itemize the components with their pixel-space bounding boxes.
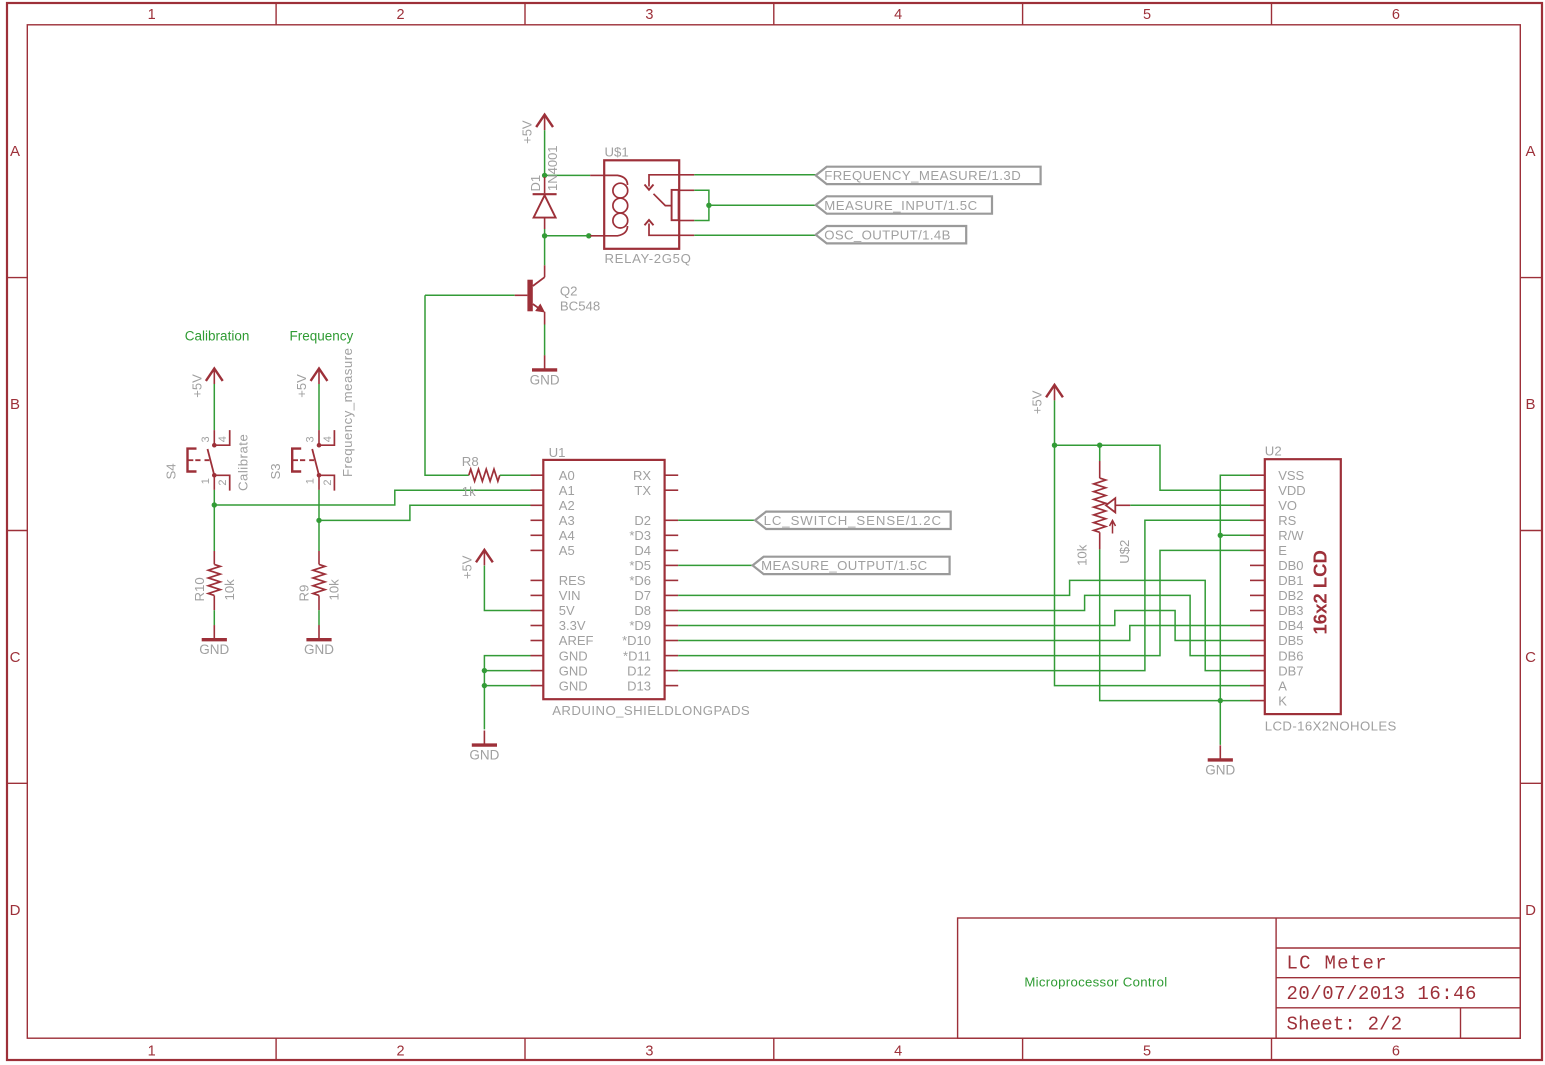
svg-text:2: 2: [322, 479, 334, 485]
junction rail/+5V: [1052, 443, 1057, 448]
net flag MEASURE_OUTPUT/1.5C: [753, 557, 950, 574]
svg-text:VIN: VIN: [559, 588, 581, 603]
svg-text:*D6: *D6: [629, 573, 651, 588]
svg-text:1k: 1k: [462, 484, 476, 499]
ground (R9): [318, 625, 320, 640]
wire rail to LCD VDD: [1055, 445, 1251, 490]
net flag MEASURE_INPUT/1.5C: [816, 196, 992, 213]
svg-text:D: D: [10, 902, 21, 919]
svg-text:RS: RS: [1278, 513, 1296, 528]
svg-text:C: C: [10, 649, 21, 666]
svg-text:S3: S3: [268, 463, 283, 479]
svg-text:Q2: Q2: [560, 283, 578, 298]
svg-text:GND: GND: [199, 642, 229, 657]
svg-text:4: 4: [322, 436, 334, 442]
svg-text:D8: D8: [634, 603, 651, 618]
svg-text:10k: 10k: [327, 579, 342, 601]
svg-text:Calibration: Calibration: [185, 328, 250, 343]
supply +5V (relay): [536, 115, 553, 127]
svg-text:16x2 LCD: 16x2 LCD: [1310, 550, 1331, 634]
svg-text:*D11: *D11: [623, 648, 651, 663]
wire D9 to LCD DB5: [678, 611, 1250, 641]
svg-text:GND: GND: [304, 642, 334, 657]
svg-text:U2: U2: [1265, 444, 1282, 459]
svg-text:RX: RX: [633, 468, 651, 483]
U1 left pin stubs: [531, 474, 544, 476]
svg-text:B: B: [1525, 396, 1535, 413]
junction on coil wire: [586, 233, 591, 238]
svg-text:BC548: BC548: [560, 298, 600, 313]
svg-text:GND: GND: [469, 748, 499, 763]
wire rail down to LCD A (backlight): [1055, 445, 1251, 685]
wire S4 node to U1 A1: [214, 490, 530, 505]
svg-text:DB0: DB0: [1278, 558, 1303, 573]
svg-text:*D5: *D5: [629, 558, 651, 573]
svg-text:3: 3: [305, 436, 317, 442]
svg-text:U1: U1: [549, 445, 566, 460]
svg-text:*D10: *D10: [622, 633, 651, 648]
wire +5V to U1 5V: [484, 566, 530, 611]
svg-text:1: 1: [148, 1044, 156, 1060]
svg-text:MEASURE_INPUT/1.5C: MEASURE_INPUT/1.5C: [824, 198, 978, 213]
svg-text:4: 4: [217, 436, 229, 442]
wire pot wiper to LCD VO: [1130, 504, 1250, 506]
svg-text:GND: GND: [1205, 762, 1235, 777]
svg-text:DB5: DB5: [1278, 633, 1303, 648]
svg-text:RELAY-2G5Q: RELAY-2G5Q: [605, 251, 692, 266]
junction S4 node: [212, 502, 217, 507]
svg-text:D4: D4: [634, 543, 651, 558]
svg-text:D13: D13: [627, 678, 651, 693]
wire D7 to LCD DB7: [678, 580, 1250, 670]
junction node MEASURE_INPUT: [706, 203, 711, 208]
svg-text:K: K: [1278, 693, 1287, 708]
svg-text:LC_SWITCH_SENSE/1.2C: LC_SWITCH_SENSE/1.2C: [764, 513, 942, 528]
svg-text:+5V: +5V: [1030, 390, 1045, 414]
resistor R10 10k: [208, 564, 220, 595]
svg-text:A: A: [1525, 143, 1535, 160]
svg-text:3.3V: 3.3V: [559, 618, 586, 633]
svg-text:A2: A2: [559, 498, 575, 513]
ground (LCD): [1219, 745, 1221, 760]
svg-text:E: E: [1278, 543, 1287, 558]
wire S4 pin 1 down: [213, 475, 215, 490]
svg-text:TX: TX: [634, 483, 651, 498]
svg-text:FREQUENCY_MEASURE/1.3D: FREQUENCY_MEASURE/1.3D: [824, 168, 1021, 183]
relay U$1 RELAY-2G5Q: [604, 160, 679, 249]
svg-text:AREF: AREF: [559, 633, 594, 648]
svg-text:1N4001: 1N4001: [545, 145, 560, 191]
svg-text:GND: GND: [559, 648, 588, 663]
potentiometer U$2 10k: [1099, 445, 1101, 461]
wire R8 to U1 A0: [500, 474, 531, 476]
svg-text:D12: D12: [627, 663, 651, 678]
svg-text:10k: 10k: [222, 579, 237, 601]
junction K/gnd: [1218, 698, 1223, 703]
svg-text:GND: GND: [559, 678, 588, 693]
svg-text:R8: R8: [462, 454, 479, 469]
wire U1 GND pins to ground: [484, 656, 530, 730]
wire to MEASURE_INPUT flag: [709, 204, 816, 206]
wire +5V to S3 pin 3: [318, 384, 320, 430]
svg-text:R10: R10: [192, 577, 207, 601]
svg-text:VSS: VSS: [1278, 468, 1304, 483]
svg-text:Frequency: Frequency: [290, 328, 354, 343]
svg-text:20/07/2013 16:46: 20/07/2013 16:46: [1287, 983, 1477, 1005]
svg-text:6: 6: [1392, 1044, 1400, 1060]
wire Q2 emitter to ground: [544, 325, 546, 356]
title block: [958, 918, 1521, 1038]
svg-text:C: C: [1525, 649, 1536, 666]
wire +5V to S4 pin 3: [213, 384, 215, 430]
ground (R10): [213, 625, 215, 640]
svg-text:D2: D2: [634, 513, 651, 528]
junction S3 node: [316, 518, 321, 523]
U1 right pin stubs: [665, 474, 679, 476]
IC U2 LCD-16X2NOHOLES: [1265, 459, 1341, 714]
transistor Q2 BC548: [544, 265, 546, 277]
wire node to relay coil pin 1: [545, 174, 591, 176]
svg-text:U$2: U$2: [1117, 540, 1132, 564]
wire relay pin to OSC_OUTPUT flag: [679, 234, 694, 236]
wire pot bottom to LCD K / gnd net: [1099, 532, 1101, 549]
wire +5V down to rail: [1054, 400, 1056, 445]
relay contact plate: [672, 190, 679, 220]
svg-text:B: B: [10, 396, 20, 413]
svg-text:VO: VO: [1278, 498, 1297, 513]
svg-text:GND: GND: [530, 372, 560, 387]
net flag LC_SWITCH_SENSE/1.2C: [755, 512, 951, 529]
net flag OSC_OUTPUT/1.4B: [816, 226, 967, 243]
U2 pin stubs: [1250, 474, 1265, 476]
wire relay pin to FREQUENCY_MEASURE flag: [679, 174, 694, 176]
ground (Q2): [544, 355, 546, 370]
junction GND1: [482, 668, 487, 673]
supply +5V (S3): [311, 369, 328, 381]
wire node to relay coil pin 2: [545, 235, 591, 237]
svg-text:4: 4: [894, 1044, 902, 1060]
svg-text:D7: D7: [634, 588, 651, 603]
svg-text:2: 2: [217, 479, 229, 485]
svg-text:4: 4: [894, 7, 902, 23]
svg-text:10k: 10k: [1075, 544, 1090, 566]
svg-text:S4: S4: [163, 463, 178, 479]
svg-text:DB3: DB3: [1278, 603, 1303, 618]
supply +5V (LCD): [1046, 385, 1063, 397]
svg-text:5V: 5V: [559, 603, 575, 618]
resistor R9 10k: [313, 564, 325, 595]
wire D12 to LCD RS: [678, 520, 1250, 670]
svg-text:Sheet: 2/2: Sheet: 2/2: [1287, 1014, 1403, 1036]
svg-text:2: 2: [396, 1044, 404, 1060]
svg-text:5: 5: [1143, 1044, 1151, 1060]
svg-text:A0: A0: [559, 468, 575, 483]
svg-text:R/W: R/W: [1278, 528, 1304, 543]
svg-text:A4: A4: [559, 528, 575, 543]
svg-text:*D9: *D9: [629, 618, 651, 633]
svg-text:DB6: DB6: [1278, 648, 1303, 663]
wire U1 D5 to flag: [678, 564, 752, 566]
svg-text:Calibrate: Calibrate: [235, 434, 250, 491]
svg-text:DB2: DB2: [1278, 588, 1303, 603]
junction R/W: [1218, 533, 1223, 538]
svg-text:R9: R9: [297, 585, 312, 602]
supply +5V (U1 5V pin): [476, 550, 493, 562]
svg-text:+5V: +5V: [459, 555, 474, 579]
svg-text:RES: RES: [559, 573, 586, 588]
wire LCD VSS/RW down to ground: [1220, 475, 1250, 745]
svg-text:D: D: [1525, 902, 1536, 919]
svg-text:LC Meter: LC Meter: [1287, 953, 1388, 975]
wire S3 node to U1 A2: [319, 505, 531, 520]
svg-text:1: 1: [148, 7, 156, 23]
svg-text:Microprocessor Control: Microprocessor Control: [1024, 974, 1167, 989]
svg-text:MEASURE_OUTPUT/1.5C: MEASURE_OUTPUT/1.5C: [761, 558, 927, 573]
IC U1 ARDUINO_SHIELDLONGPADS: [543, 460, 664, 699]
svg-text:DB1: DB1: [1278, 573, 1303, 588]
svg-text:OSC_OUTPUT/1.4B: OSC_OUTPUT/1.4B: [824, 228, 951, 243]
svg-text:+5V: +5V: [294, 374, 309, 398]
ground (U1): [483, 731, 485, 746]
net flag FREQUENCY_MEASURE/1.3D: [816, 167, 1041, 184]
resistor R8 1k: [469, 469, 500, 481]
wire D11 to LCD E: [678, 550, 1250, 655]
svg-text:6: 6: [1392, 7, 1400, 23]
diode D1 1N4001: [544, 177, 546, 193]
svg-text:3: 3: [645, 1044, 653, 1060]
junction node +5V/D1/relay coil: [542, 173, 547, 178]
junction node D1/Q2/relay coil 2: [542, 233, 547, 238]
svg-text:GND: GND: [559, 663, 588, 678]
switch S3: [317, 443, 322, 448]
svg-text:D1: D1: [528, 175, 543, 192]
wire D10 to LCD DB4: [678, 626, 1250, 641]
svg-text:1: 1: [305, 478, 317, 484]
svg-text:+5V: +5V: [189, 374, 204, 398]
svg-text:DB7: DB7: [1278, 663, 1303, 678]
supply +5V (S4): [206, 369, 223, 381]
svg-text:DB4: DB4: [1278, 618, 1303, 633]
svg-text:U$1: U$1: [605, 145, 629, 160]
switch S4: [212, 443, 217, 448]
svg-text:A: A: [10, 143, 20, 160]
svg-text:3: 3: [645, 7, 653, 23]
wire R10 top: [213, 505, 215, 551]
wire D1 to lower node: [544, 229, 546, 236]
svg-text:1: 1: [200, 478, 212, 484]
wire +5V to node: [544, 130, 546, 175]
svg-text:A1: A1: [559, 483, 575, 498]
junction rail/pot: [1097, 443, 1102, 448]
svg-text:2: 2: [396, 7, 404, 23]
wire U1 D2 to flag: [678, 519, 755, 521]
svg-text:A3: A3: [559, 513, 575, 528]
svg-text:LCD-16X2NOHOLES: LCD-16X2NOHOLES: [1265, 718, 1397, 733]
wire relay contact pins to measure node: [679, 189, 695, 191]
wire R9 top: [318, 520, 320, 551]
svg-text:+5V: +5V: [520, 120, 535, 144]
wire Q2 base: [425, 294, 515, 296]
svg-text:5: 5: [1143, 7, 1151, 23]
wire S3 pin 1 down: [318, 475, 320, 490]
svg-text:ARDUINO_SHIELDLONGPADS: ARDUINO_SHIELDLONGPADS: [552, 703, 750, 718]
wire node to Q2 collector: [544, 236, 546, 265]
wire LCD R/W to gnd line: [1220, 534, 1250, 536]
svg-text:3: 3: [200, 436, 212, 442]
svg-text:VDD: VDD: [1278, 483, 1305, 498]
svg-text:Frequency_measure: Frequency_measure: [340, 348, 355, 477]
wire R10 bottom: [213, 610, 215, 625]
svg-text:A5: A5: [559, 543, 575, 558]
wire R9 bottom: [318, 610, 320, 625]
svg-text:A: A: [1278, 678, 1287, 693]
wire D8 to LCD DB6: [678, 595, 1250, 655]
svg-text:*D3: *D3: [629, 528, 651, 543]
junction GND2: [482, 683, 487, 688]
wire Q2 base to R8: [425, 295, 469, 475]
